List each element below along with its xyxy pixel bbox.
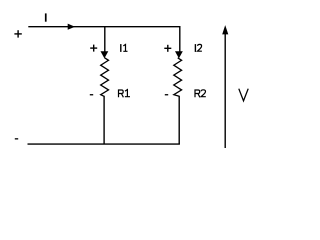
voltage arrow V shaft	[224, 33, 226, 148]
wire branch2 top shaft	[179, 26, 181, 52]
current arrow I	[68, 24, 75, 30]
wire branch1 bottom shaft	[103, 96, 105, 144]
label + (I2 polarity)	[164, 45, 171, 52]
voltage arrow V head	[222, 25, 228, 34]
label I	[45, 13, 47, 21]
label I1	[120, 44, 127, 52]
wire top horizontal	[28, 26, 180, 28]
node - (source negative terminal)	[15, 138, 18, 139]
label I2	[195, 44, 202, 52]
resistor R1	[101, 58, 109, 97]
label - (R2 polarity)	[165, 94, 168, 95]
node + (source positive terminal)	[14, 30, 21, 37]
resistor R2	[174, 58, 182, 97]
label V	[239, 89, 248, 101]
label R2	[195, 89, 206, 97]
label - (R1 polarity)	[90, 94, 93, 95]
wire bottom horizontal	[28, 143, 180, 145]
wire branch2 bottom shaft	[178, 96, 180, 144]
current arrow I2	[175, 51, 183, 58]
label R1	[119, 89, 131, 97]
current arrow I1	[101, 51, 109, 58]
label + (I1 polarity)	[90, 45, 97, 52]
wire branch1 top shaft	[104, 27, 106, 52]
